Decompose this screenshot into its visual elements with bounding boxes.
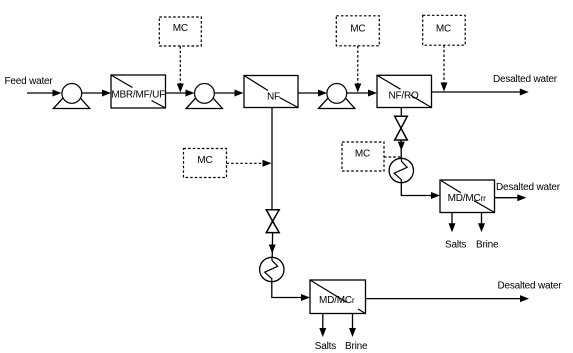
svg-text:MBR/MF/UF: MBR/MF/UF xyxy=(111,90,165,101)
membrane unit NF xyxy=(244,76,298,108)
svg-text:Salts: Salts xyxy=(445,239,466,250)
svg-text:MD/MCrr: MD/MCrr xyxy=(448,193,487,204)
wire pump P2 to NF unit xyxy=(214,90,243,97)
wire MD/MC I salts outlet xyxy=(319,314,326,338)
svg-text:Brine: Brine xyxy=(476,239,499,250)
node Brine label (middle) xyxy=(476,239,499,250)
svg-text:MC: MC xyxy=(350,24,365,35)
svg-text:MC: MC xyxy=(436,24,451,35)
wire HX2 to MD/MC I unit xyxy=(272,282,310,301)
valve V1 on NF/RO retentate branch xyxy=(395,116,408,140)
wire HX1 to MD/MC II unit xyxy=(401,183,440,199)
wire pump P1 to MBR unit xyxy=(82,90,111,97)
svg-text:MC: MC xyxy=(197,155,212,166)
crystallizer unit MD/MC II xyxy=(440,180,495,213)
wire MC1 dashed control line to MBR-P2 stream xyxy=(177,46,184,93)
pump P1 xyxy=(53,84,89,109)
node Desalted water label (bottom) xyxy=(498,281,563,292)
valve V2 on NF retentate branch xyxy=(266,210,279,233)
svg-text:NF/RO: NF/RO xyxy=(388,91,419,102)
wire MC4 dashed control line to NF retentate branch xyxy=(227,160,272,167)
wire pump P3 to NF/RO unit xyxy=(347,90,377,97)
wire MD/MC II brine outlet xyxy=(478,213,485,233)
wire NF retentate down branch xyxy=(271,108,273,211)
wire MD/MC I to desalted water outlet (bottom) xyxy=(366,295,530,302)
membrane unit NF/RO xyxy=(377,75,432,107)
node Feed water label xyxy=(5,76,54,87)
controller MC4 xyxy=(184,149,227,178)
node Salts label (middle) xyxy=(445,239,466,250)
svg-text:Desalted water: Desalted water xyxy=(498,281,563,292)
svg-text:Brine: Brine xyxy=(345,341,368,352)
wire MD/MC II salts outlet xyxy=(449,213,456,233)
svg-text:Feed water: Feed water xyxy=(5,76,54,87)
heat exchanger HX1 xyxy=(389,158,413,182)
wire valve V2 to heat exchanger HX2 xyxy=(269,233,276,258)
controller MC2 xyxy=(336,16,379,46)
heat exchanger HX2 xyxy=(260,257,284,281)
wire MC3 dashed control line to desalted outlet stream xyxy=(441,45,448,91)
svg-text:MC: MC xyxy=(173,23,188,34)
svg-text:MC: MC xyxy=(355,149,370,160)
node Desalted water label (top) xyxy=(493,74,558,85)
wire MD/MC I brine outlet xyxy=(349,314,356,338)
controller MC1 xyxy=(159,17,201,46)
node Salts label (bottom) xyxy=(315,341,336,352)
wire NF/RO retentate down branch xyxy=(400,108,402,117)
svg-text:MD/MCr: MD/MCr xyxy=(319,295,355,306)
wire NF unit to pump P3 xyxy=(298,90,327,97)
svg-text:Desalted water: Desalted water xyxy=(493,74,558,85)
wire MBR unit to pump P2 xyxy=(166,90,195,97)
wire MD/MC II to desalted water outlet (middle) xyxy=(495,194,527,201)
wire feed water to pump P1 xyxy=(27,90,62,97)
wire valve V1 to heat exchanger HX1 xyxy=(398,140,405,158)
pump P3 xyxy=(319,84,355,109)
crystallizer unit MD/MC I xyxy=(310,280,366,314)
wire MC5 dashed control line to HX1 xyxy=(384,156,401,158)
wire NF/RO unit to desalted water outlet (top) xyxy=(432,89,529,96)
membrane unit MBR/MF/UF xyxy=(111,75,166,108)
svg-text:Desalted water: Desalted water xyxy=(496,182,561,193)
pump P2 xyxy=(186,84,222,109)
node Desalted water label (middle) xyxy=(496,182,561,193)
svg-text:Salts: Salts xyxy=(315,341,336,352)
svg-text:NF: NF xyxy=(267,91,280,102)
controller MC5 xyxy=(342,142,384,171)
controller MC3 xyxy=(423,15,466,45)
wire MC2 dashed control line to P3-NF/RO stream xyxy=(354,46,361,93)
node Brine label (bottom) xyxy=(345,341,368,352)
